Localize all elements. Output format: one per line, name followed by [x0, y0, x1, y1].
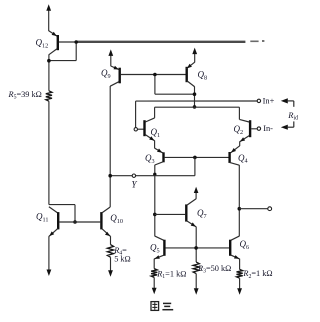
svg-text:In+: In+: [263, 96, 275, 105]
svg-text:5 kΩ: 5 kΩ: [114, 254, 131, 263]
svg-text:In-: In-: [263, 124, 273, 133]
svg-text:R3=50 kΩ: R3=50 kΩ: [197, 264, 231, 275]
